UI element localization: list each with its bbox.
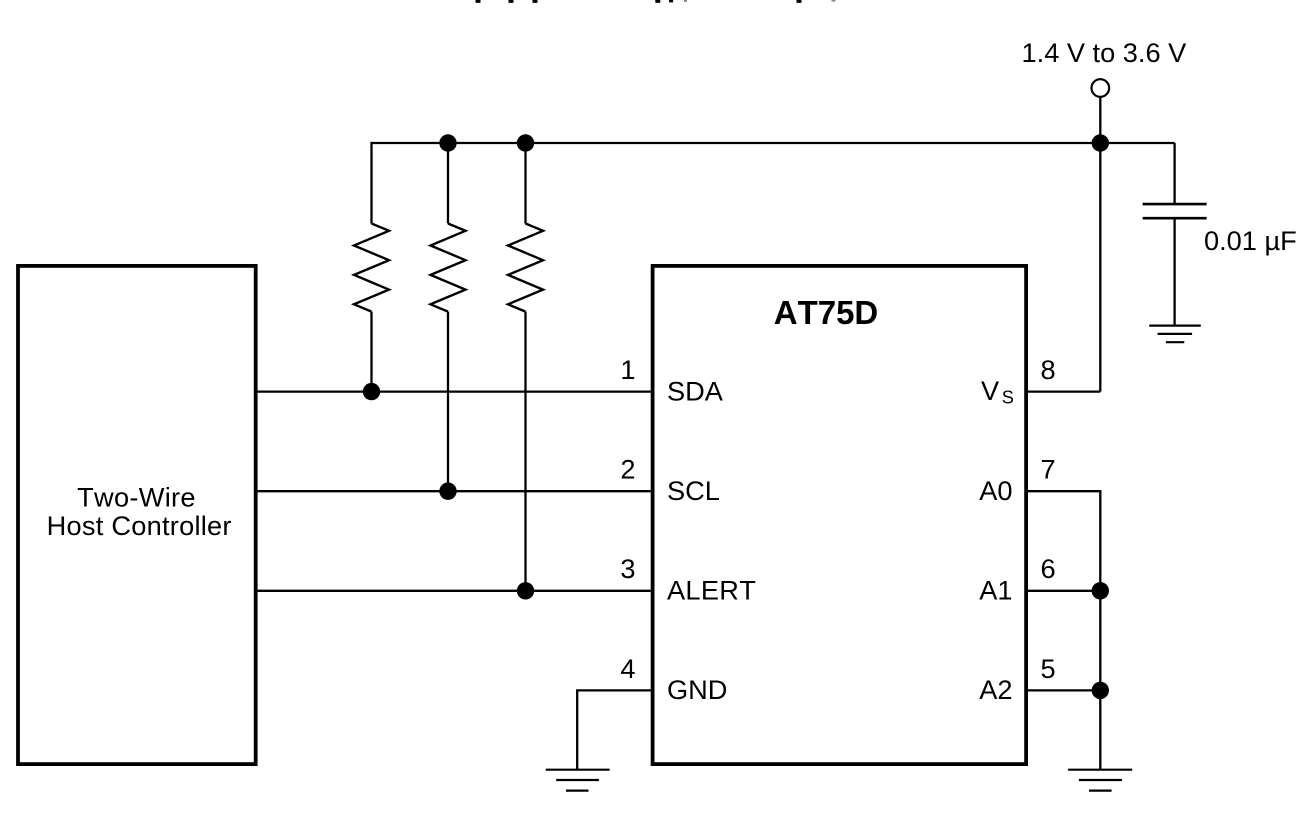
wire: SDA net (host to pin 1) (258, 390, 651, 392)
svg-text:A1: A1 (979, 575, 1012, 606)
svg-text:3: 3 (620, 553, 635, 584)
svg-text:1: 1 (620, 354, 635, 385)
wire: GND pin 4 to ground (577, 690, 651, 769)
wire: pin 8 VS to supply (1026, 390, 1100, 392)
capacitor C1 0.01 uF (1143, 204, 1207, 218)
supply terminal (open circle) (1092, 79, 1110, 97)
svg-text:7: 7 (1041, 454, 1056, 485)
node: junction dot A2 / bus (1092, 682, 1109, 699)
wire: top horizontal bus (372, 142, 1175, 144)
node: junction dot top bus / supply (1092, 134, 1109, 151)
svg-text:A0: A0 (979, 475, 1012, 506)
svg-text:AT75D: AT75D (774, 294, 879, 331)
node: junction dot SCL / R2 (439, 483, 456, 500)
ground (address bus) (1068, 770, 1132, 791)
svg-text:V: V (981, 375, 1000, 406)
svg-text:SCL: SCL (667, 475, 720, 506)
svg-text:0.01 µF: 0.01 µF (1204, 225, 1297, 256)
resistor R2 (pull-up on SCL) (431, 143, 466, 491)
node: junction dot SDA / R1 (363, 383, 380, 400)
node: junction dot ALERT / R3 (517, 582, 534, 599)
svg-text:ALERT: ALERT (667, 575, 756, 606)
wire: pin 5 A2 to bus (1026, 689, 1100, 691)
wire: supply vertical from terminal to pin 8 (1099, 97, 1101, 392)
host controller block (18, 266, 256, 764)
wire: capacitor to ground (1173, 218, 1175, 325)
svg-text:SDA: SDA (667, 375, 724, 406)
wire: pin 7 A0 to address bus (1026, 491, 1100, 770)
svg-text:8: 8 (1041, 354, 1056, 385)
svg-text:4: 4 (620, 653, 635, 684)
svg-text:5: 5 (1041, 653, 1056, 684)
node: junction dot top bus / R3 (517, 134, 534, 151)
svg-text:Two-Wire: Two-Wire (77, 481, 196, 512)
svg-text:1.4 V to 3.6 V: 1.4 V to 3.6 V (1022, 37, 1188, 68)
cropped text descenders at top edge (476, 0, 836, 3)
svg-text:GND: GND (667, 674, 727, 705)
node: junction dot top bus / R2 (439, 134, 456, 151)
resistor R3 (pull-up on ALERT) (508, 143, 543, 591)
ground (capacitor, small) (1149, 326, 1201, 343)
IC U1 AT75D (653, 266, 1027, 764)
node: junction dot A1 / bus (1092, 582, 1109, 599)
svg-text:Host Controller: Host Controller (47, 510, 232, 541)
wire: ALERT net (host to pin 3) (258, 590, 651, 592)
svg-text:A2: A2 (979, 674, 1012, 705)
wire: pin 6 A1 to bus (1026, 590, 1100, 592)
wire: capacitor branch from top bus (1173, 143, 1175, 204)
ground (pin 4) (546, 770, 610, 791)
svg-text:S: S (1002, 388, 1014, 408)
wire: SCL net (host to pin 2) (258, 490, 651, 492)
resistor R1 (pull-up on SDA) (354, 142, 389, 392)
svg-text:2: 2 (620, 454, 635, 485)
svg-text:6: 6 (1041, 553, 1056, 584)
